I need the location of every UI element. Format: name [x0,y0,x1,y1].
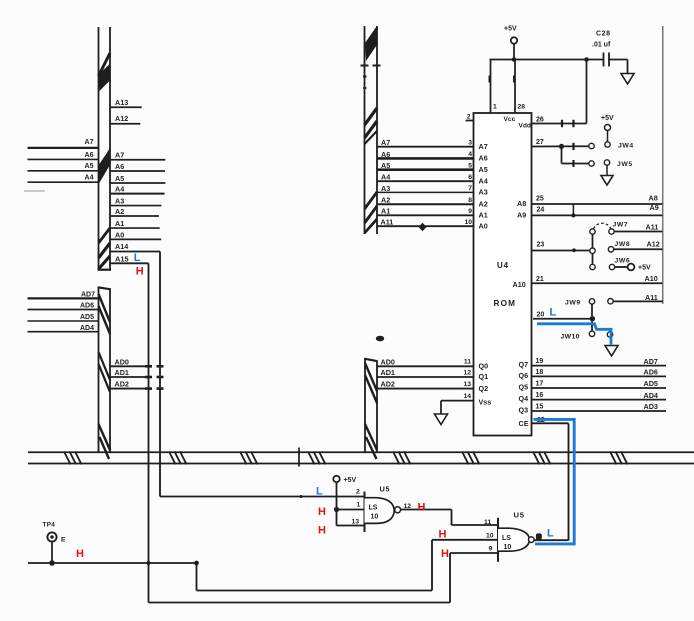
svg-text:A10: A10 [513,280,526,289]
svg-text:H: H [136,265,144,277]
bus hatch (horizontal bus) [64,452,628,465]
svg-text:10: 10 [486,533,494,540]
wire U4 pin 19 Q7 / AD7 [519,357,667,369]
svg-text:A1: A1 [115,219,124,228]
wire U4 pin 26 to rail [532,60,587,124]
wire node E (TP4 horizontal) [28,562,197,564]
junction speck (A14 wire) [300,495,303,498]
svg-text:A2: A2 [115,207,124,216]
junction (TP4 / wire) [49,560,55,566]
svg-text:Q4: Q4 [519,394,529,403]
svg-text:LS: LS [502,535,511,542]
svg-text:A5: A5 [381,161,390,170]
jumper JW10 [561,321,613,340]
svg-text:Vcc: Vcc [504,116,516,123]
wire A2 to U4 pin 8 [377,196,488,209]
junction (pin 27 branch) [559,144,564,149]
svg-text:A2: A2 [479,200,488,209]
svg-text:10: 10 [464,219,472,226]
svg-text:Q6: Q6 [519,371,529,380]
U4 ROM label [494,299,517,308]
svg-text:A8: A8 [517,199,526,208]
svg-text:A4: A4 [85,175,94,182]
wire A5 to U4 pin 5 [377,161,488,174]
annotation L (U5a input) [316,486,323,498]
svg-text:A3: A3 [479,188,488,197]
svg-text:A5: A5 [85,163,94,170]
svg-text:A1: A1 [479,211,488,220]
bus hatch (bus AD bottom) [99,424,111,459]
svg-text:L: L [134,252,141,264]
wire AD6 (left feed) [28,303,99,310]
jumper JW6 [609,258,651,272]
junction (E wire corner) [194,561,199,566]
wire A5 (bus A tap) [110,174,165,183]
svg-text:12: 12 [404,503,412,510]
junction (U5a pin 1) [334,507,339,512]
svg-text:Q1: Q1 [479,372,489,381]
wire stub crossing horizontal bus [298,448,300,467]
wire (C28 to ground) [609,60,628,74]
svg-text:.01 uf: .01 uf [592,42,611,49]
wire A0 (bus A tap) [110,230,161,239]
svg-text:Q5: Q5 [519,383,529,392]
ground (JW5) [601,176,613,186]
jumper JW9 [565,299,613,317]
svg-text:AD5: AD5 [644,379,658,388]
U5b pin labels [486,533,494,553]
svg-text:+5V: +5V [638,265,651,272]
wire U4 pin 15 Q3 / AD3 [519,402,667,414]
wire A6 (bus A tap) [110,162,165,171]
jumper JW5 [604,160,632,176]
junction smear (pin 26 wire a) [561,120,563,127]
ground (C28) [621,74,634,85]
svg-text:ROM: ROM [494,299,517,308]
wire JW8 to A12 [614,240,663,250]
address bus A (left vertical bus, lines) [98,27,111,270]
power rail wire [490,59,604,61]
wire AD5 (left feed) [28,314,99,321]
wire U4 pin 24 / A9 [517,203,663,219]
svg-text:A1: A1 [381,207,390,216]
svg-text:28: 28 [518,104,526,111]
bus hatch (bus B mid) [365,108,378,144]
U5a pin labels [352,488,361,525]
svg-text:18: 18 [536,369,544,376]
svg-text:AD7: AD7 [644,357,658,366]
svg-text:13: 13 [463,381,471,388]
bus hatch (bus A top) [98,53,110,91]
svg-text:A11: A11 [646,223,659,232]
svg-text:L: L [547,528,554,540]
U5b output bubble [529,537,535,543]
svg-text:10: 10 [371,513,379,520]
junction smear (pin 27 wire) [572,143,574,150]
annotation L (U5b output) [547,528,554,540]
svg-text:A7: A7 [479,142,488,151]
ground (Vss) [435,414,448,425]
wire AD7 (left feed) [28,291,99,298]
annotation H (U5a pin 1) [318,506,326,518]
svg-text:+5V: +5V [601,115,614,122]
U4 pin 28 Vdd [515,60,531,130]
svg-text:AD6: AD6 [644,368,658,377]
svg-text:25: 25 [536,196,544,203]
wire A6 (left feed) [28,152,99,159]
svg-text:16: 16 [536,392,544,399]
svg-text:AD4: AD4 [80,325,94,332]
data bus AD (left vertical bus, lines) [98,287,111,452]
svg-text:H: H [318,525,326,537]
svg-text:2: 2 [356,488,360,495]
wire U5b pin 8 (black) [534,539,568,541]
wire JW9 to A11 [613,293,663,302]
wire A7 to U4 pin 3 [377,138,488,151]
wire A4 (bus A tap) [110,185,165,194]
svg-text:U5: U5 [380,485,390,494]
wire AD0 (bus AD tap) [110,357,147,366]
svg-text:3: 3 [468,140,472,147]
wire A1 (bus A tap) [110,219,160,228]
horizontal bus (lines) [28,452,694,463]
svg-text:26: 26 [536,117,544,124]
wire A15 / node E (to gate U5 pin 9 riser) [110,254,450,602]
wire (pin23 riser to JW7/JW6) [592,234,594,265]
wire U4 pin 27 to jumpers [532,139,590,164]
svg-text:JW6: JW6 [615,258,631,265]
svg-text:A3: A3 [115,197,124,206]
bus hatch (bus A, A7-A4 feedthrough) [98,149,111,184]
svg-text:A12: A12 [115,114,128,123]
svg-text:CE: CE [519,419,529,428]
svg-text:H: H [418,501,426,513]
test point TP4 [43,522,67,564]
wire A4 to U4 pin 6 [377,173,488,186]
bus hatch (bus AD-B bottom) [365,424,377,459]
svg-text:C28: C28 [596,31,611,38]
+5V supply terminal (top) [504,26,517,60]
junction (rail / +5V) [512,57,517,62]
junction (rail / pin26 riser) [584,57,589,62]
bus hatch (bus AD mid) [99,352,111,392]
vertical wire (right edge) [662,26,664,304]
svg-text:AD5: AD5 [80,314,94,321]
svg-text:1: 1 [493,104,497,111]
junction ticks AD1 crossing [145,376,164,379]
junction smear (pin 1 wire) [489,76,491,83]
svg-text:TP4: TP4 [43,522,56,529]
U5a output bubble [395,507,401,513]
jumper JW7 [590,221,628,234]
svg-text:24: 24 [537,207,545,214]
svg-text:A4: A4 [479,176,488,185]
svg-text:Vss: Vss [479,397,492,406]
svg-text:Q7: Q7 [519,360,529,369]
faint wire remnant [24,190,45,192]
svg-text:AD2: AD2 [381,380,395,389]
svg-text:Vdd: Vdd [519,123,531,130]
+5V supply terminal (JW4) [601,115,614,142]
wire AD1 (bus AD tap) [110,368,147,377]
svg-text:11: 11 [484,519,491,526]
svg-text:H: H [318,506,326,518]
svg-text:E: E [61,537,66,544]
U4 pin 2 stub [466,114,474,121]
jumper contact (pin23 bottom) [590,264,595,269]
wire A7 (left feed) [28,139,99,148]
svg-text:H: H [439,529,447,541]
svg-text:9: 9 [468,208,472,215]
svg-text:A6: A6 [479,154,488,163]
svg-text:LS: LS [369,505,378,512]
svg-text:AD4: AD4 [644,391,658,400]
jumper contact (27 upper) [589,143,594,148]
U5b pin 8 blob [536,533,542,539]
svg-text:A8: A8 [649,194,658,203]
svg-text:+5V: +5V [344,477,357,484]
wire U4 pin 17 Q5 / AD5 [519,379,667,391]
ROM U4 (body) [474,113,532,436]
svg-text:A7: A7 [381,138,390,147]
junction (A15 riser / E wire) [146,561,150,565]
wire A3 to U4 pin 7 [377,184,488,197]
svg-text:14: 14 [463,393,471,400]
svg-text:A9: A9 [650,203,659,212]
wire U4 pin 16 Q4 / AD4 [519,391,667,403]
svg-text:10: 10 [504,544,512,551]
svg-text:17: 17 [536,380,544,387]
wire U4 pin 20 [533,312,593,319]
svg-text:4: 4 [468,151,472,158]
svg-text:11: 11 [464,359,471,366]
svg-text:AD7: AD7 [81,291,95,298]
wire AD0 to U4 pin 11 [377,357,488,370]
junction (pin 20 / JW9) [590,316,595,321]
capacitor C28 [592,31,611,67]
wire AD4 (left feed) [28,325,99,332]
svg-text:L: L [316,486,323,498]
svg-text:A6: A6 [115,162,124,171]
bus hatch (bus AD upper) [99,294,111,334]
wire A13 [110,98,142,107]
wire (A15 riser to gate U5 pin 9) [450,552,498,554]
wire JW7 to A11 [614,223,663,232]
junction ticks AD2 crossing [145,387,164,390]
wire U4 pin 18 Q6 / AD6 [519,368,667,380]
wire A11 to U4 pin 10 [377,217,488,231]
svg-text:U5: U5 [514,511,525,520]
svg-text:AD3: AD3 [644,402,658,411]
svg-text:A9: A9 [517,210,526,219]
wire node E (to gate U5 pin 10) [197,540,499,591]
svg-text:A15: A15 [115,254,129,263]
wire A7 (bus A tap) [110,150,165,159]
annotation H (TP4) [76,548,84,560]
jumper contact (27 lower) [589,161,594,166]
svg-text:JW9: JW9 [565,300,581,307]
wire U5a pin 12 to U5b pin 11 [401,503,498,526]
svg-text:L: L [550,306,557,318]
svg-text:A2: A2 [381,196,390,205]
svg-text:8: 8 [468,197,472,204]
wire U4 pin 23 [532,242,593,253]
svg-text:6: 6 [468,174,472,181]
annotation H (U5b pin 10) [439,529,447,541]
bus hatch (bus B top) [365,27,378,62]
svg-text:13: 13 [352,518,360,525]
svg-text:A4: A4 [381,173,390,182]
junction tick (A8/A9) [571,204,575,217]
svg-text:JW8: JW8 [615,241,631,248]
svg-text:JW10: JW10 [561,334,580,341]
svg-text:AD0: AD0 [381,357,395,366]
jumper JW4 [605,142,634,150]
svg-text:12: 12 [463,370,471,377]
svg-text:20: 20 [537,312,545,319]
wire U4 pin 21 / A10 [513,274,664,289]
svg-text:AD1: AD1 [115,368,129,377]
svg-text:A7: A7 [85,139,94,146]
annotation L (pin 20) [550,306,557,318]
svg-text:Q2: Q2 [479,384,489,393]
svg-text:21: 21 [536,276,544,283]
svg-text:A7: A7 [115,150,124,159]
svg-text:AD0: AD0 [115,357,129,366]
data bus AD-B (vertical bus at U4, lines) [364,359,377,453]
svg-text:A6: A6 [381,150,390,159]
wire U4 pin 14 Vss to ground [441,393,491,414]
svg-text:Q3: Q3 [519,406,529,415]
wire AD1 to U4 pin 12 [377,368,488,381]
svg-text:AD2: AD2 [115,380,129,389]
svg-text:A11: A11 [381,217,394,226]
wire AD2 (bus AD tap) [110,380,147,389]
svg-text:A6: A6 [85,152,94,159]
svg-text:A4: A4 [115,185,124,194]
bus tick marks (bus B) [361,66,381,89]
scan artifact blob [376,336,384,342]
bus hatch (bus B lower) [365,192,378,233]
svg-text:H: H [76,548,84,560]
svg-text:JW4: JW4 [618,143,634,150]
svg-text:7: 7 [468,185,472,192]
wire A2 (bus A tap) [110,207,159,216]
svg-text:A12: A12 [647,240,660,249]
svg-text:15: 15 [536,403,544,410]
svg-text:U4: U4 [497,261,509,270]
svg-text:A0: A0 [115,230,124,239]
U4 CE label [519,417,545,428]
wire A12 [110,114,140,124]
address bus B (vertical bus at U4, lines) [365,26,378,234]
svg-text:H: H [441,548,449,560]
wire CE highlight (blue) [534,419,575,544]
bus hatch (bus A, A14/A15 area) [99,228,111,269]
svg-text:JW7: JW7 [613,221,629,228]
bus hatch (bus AD-B upper) [365,363,377,403]
annotation H (U5a output) [418,501,426,513]
annotation H (U5a pin 13) [318,525,326,537]
wire A5 (left feed) [28,163,99,171]
junction smear (pin 26 wire b) [572,120,574,127]
+5V supply terminal (U5a) [333,476,356,497]
ground (JW10) [605,346,618,357]
junction smear (pin 28 wire) [513,76,515,83]
svg-text:A14: A14 [115,242,128,251]
jumper JW8 [608,241,630,252]
wire A6 to U4 pin 4 [377,150,488,163]
wire U4 pin 25 / A8 [517,194,663,208]
wire A4 (left feed) [28,175,99,183]
svg-text:A13: A13 [115,98,128,107]
wire A3 (bus A tap) [110,197,161,206]
wire CE (black) [532,423,569,540]
svg-text:5: 5 [468,163,472,170]
U4 pin 1 Vcc [491,60,516,124]
svg-text:9: 9 [489,545,493,552]
svg-text:2: 2 [467,114,471,121]
annotation L (A15) [134,252,141,264]
svg-text:A3: A3 [381,184,390,193]
svg-text:+5V: +5V [504,26,517,33]
svg-text:A0: A0 [479,222,488,231]
wire AD2 to U4 pin 13 [377,380,488,393]
jumper contact (pin23 line) [590,248,595,253]
svg-text:AD1: AD1 [381,368,395,377]
wire A1 to U4 pin 9 [377,207,488,220]
svg-text:19: 19 [536,358,544,365]
svg-text:27: 27 [536,139,544,146]
op-amp U5b (NAND gate body) [498,511,530,562]
annotation H (U5b pin 9) [441,548,449,560]
svg-text:Q0: Q0 [479,362,489,371]
annotation H (A15) [136,265,144,277]
junction ticks AD0 crossing [145,365,164,368]
op-amp U5a (NAND gate body) [365,485,395,533]
wire U5a pins 1,13 tie [337,497,365,526]
svg-text:23: 23 [537,242,545,249]
svg-text:A5: A5 [479,165,488,174]
svg-text:A5: A5 [115,174,124,183]
wire A14 (to gate U5 pin 2 net) [110,242,365,497]
svg-text:A10: A10 [645,274,658,283]
svg-text:A11: A11 [645,293,658,302]
svg-text:JW5: JW5 [617,161,633,168]
wire pin20 highlight (blue) [537,324,611,345]
svg-text:1: 1 [357,501,361,508]
junction smear (pin 27 branch wire) [572,160,574,167]
U4 reference label [497,261,509,270]
svg-text:AD6: AD6 [80,303,94,310]
